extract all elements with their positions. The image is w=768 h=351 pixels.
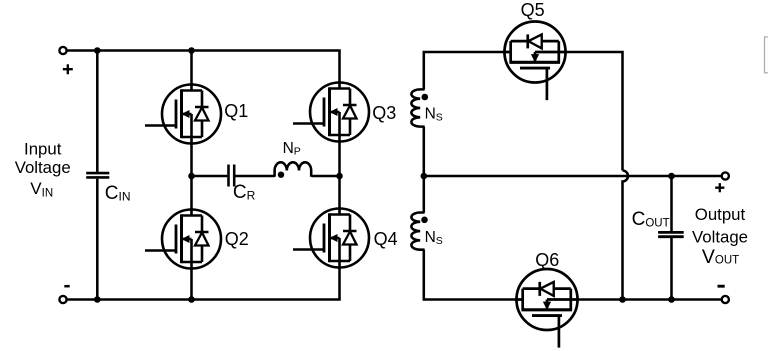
svg-text:COUT: COUT <box>632 209 670 230</box>
svg-text:Input: Input <box>24 139 62 158</box>
svg-text:Voltage: Voltage <box>692 227 748 246</box>
svg-text:Q6: Q6 <box>535 250 559 270</box>
svg-text:NS: NS <box>425 229 443 247</box>
svg-text:Q2: Q2 <box>225 229 249 249</box>
svg-text:CIN: CIN <box>105 183 131 204</box>
svg-text:Q5: Q5 <box>521 0 545 20</box>
svg-text:Output: Output <box>695 205 746 224</box>
svg-text:NS: NS <box>425 106 443 124</box>
svg-text:Voltage: Voltage <box>15 158 71 177</box>
svg-text:NP: NP <box>283 140 301 158</box>
svg-text:Q4: Q4 <box>374 229 398 249</box>
svg-text:Q3: Q3 <box>372 103 396 123</box>
svg-text:VOUT: VOUT <box>702 246 739 268</box>
svg-text:CR: CR <box>233 182 256 203</box>
svg-text:VIN: VIN <box>30 179 53 200</box>
svg-text:Q1: Q1 <box>224 101 248 121</box>
